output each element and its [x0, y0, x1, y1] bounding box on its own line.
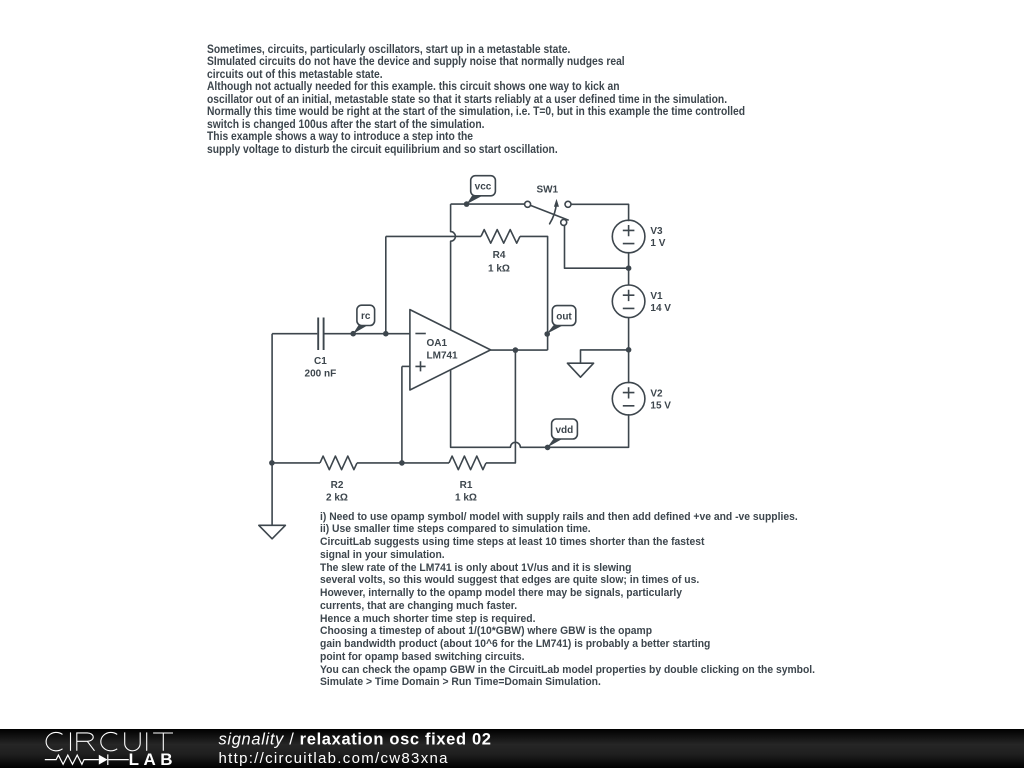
svg-text:SW1: SW1: [536, 185, 558, 196]
svg-text:signality / relaxation osc fix: signality / relaxation osc fixed 02: [219, 731, 492, 749]
svg-text:out: out: [556, 312, 572, 323]
svg-text:R2: R2: [331, 480, 344, 491]
svg-text:LAB: LAB: [129, 750, 177, 768]
svg-text:14 V: 14 V: [650, 303, 671, 314]
svg-text:R1: R1: [460, 480, 473, 491]
svg-text:vdd: vdd: [556, 425, 574, 436]
svg-text:V1: V1: [650, 291, 663, 302]
svg-text:LM741: LM741: [427, 351, 459, 362]
svg-text:http://circuitlab.com/cw83xna: http://circuitlab.com/cw83xna: [219, 750, 449, 767]
svg-text:rc: rc: [361, 311, 371, 322]
svg-text:C1: C1: [314, 356, 327, 367]
svg-text:R4: R4: [493, 250, 506, 261]
svg-text:V3: V3: [650, 226, 663, 237]
svg-text:15 V: 15 V: [650, 401, 671, 412]
svg-text:1 V: 1 V: [650, 238, 665, 249]
svg-text:vcc: vcc: [475, 181, 492, 192]
svg-text:1 kΩ: 1 kΩ: [488, 263, 510, 274]
svg-text:V2: V2: [650, 388, 663, 399]
svg-text:200 nF: 200 nF: [305, 368, 337, 379]
svg-text:1 kΩ: 1 kΩ: [455, 493, 477, 504]
svg-text:OA1: OA1: [427, 338, 448, 349]
svg-text:2 kΩ: 2 kΩ: [326, 493, 348, 504]
